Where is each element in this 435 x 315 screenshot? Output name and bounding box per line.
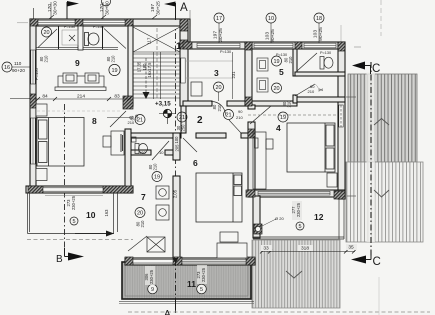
pillar left wall mid [30,94,36,108]
svg-text:83: 83 [114,94,120,100]
section line B (vertical x=64.5) [64,104,66,254]
svg-text:103: 103 [313,30,319,38]
svg-text:C: C [372,63,380,75]
wall room5 vestibule bottom [297,97,345,102]
door swing room9 west [38,29,57,48]
terrace hatch right upper (dark) [348,74,417,162]
shelf lines room3 [186,61,233,78]
window room4 right wall [339,105,343,127]
svg-text:21: 21 [179,115,185,121]
svg-text:10: 10 [268,16,274,22]
pillar bottom wall of room8 east [103,186,133,193]
nightstand room4 [327,173,337,187]
misc small texts [128,84,324,221]
wall room3 bottom east part [227,101,248,106]
stair center line [156,28,158,98]
wall room5 inner horizontal [295,72,345,76]
svg-text:16x17,5: 16x17,5 [147,62,152,78]
svg-text:210: 210 [288,56,293,64]
slope chevron up (right dark terrace) [374,119,389,126]
door room4 to terrace12 [258,191,330,195]
svg-text:16: 16 [4,65,10,71]
door swing room7 lower [128,236,147,251]
section marker A bottom [164,300,176,315]
door swing room8 [110,111,126,127]
wall room7-room6 divider lower [173,176,180,258]
svg-text:19: 19 [111,68,117,74]
pillar room4 bottom west [246,190,255,197]
pillar top-left corner [30,19,38,26]
pillar right wall bottom corner [334,191,345,199]
wall room5 inner vertical lower stub [293,95,297,103]
shower room7 [147,237,165,252]
counter line room 9 [36,48,118,50]
white halo for section line C [367,72,376,242]
window room5 top west [254,43,293,48]
dashed line room4 [248,114,338,116]
svg-text:30+25: 30+25 [156,1,162,15]
bed room6 [196,173,242,222]
pillar top wall at stair left [125,19,133,26]
svg-text:210: 210 [236,115,243,120]
stair direction arrow [143,92,150,99]
window room5 top east [304,43,336,48]
pillar top-right wall mid [295,42,302,49]
svg-text:9: 9 [75,58,80,68]
door room6 to terrace11 [182,259,246,263]
svg-text:160: 160 [139,150,146,155]
dim tick marks top [49,15,157,19]
svg-text:90: 90 [238,109,243,114]
cabinet room3 [191,82,202,96]
slope chevron down (bottom terrace) [286,271,302,278]
svg-text:19: 19 [280,115,286,121]
svg-text:205: 205 [175,144,180,152]
svg-text:197: 197 [213,31,219,39]
window room7 bottom [133,259,173,263]
door dimension rotated texts [39,55,293,228]
wall hall bottom seg2b [196,133,226,138]
svg-text:110: 110 [14,61,22,66]
toilet room9 [85,33,100,46]
pillar top-right wall at rooms3|5 [245,42,252,50]
window room9 top west [38,20,75,25]
wall bottom of room 8 [26,186,133,193]
svg-text:5: 5 [279,67,284,77]
svg-text:163: 163 [104,209,109,217]
terrace10 left edge [27,193,29,234]
wardrobe room8 [103,131,124,155]
svg-text:20: 20 [43,30,49,36]
svg-text:230+25: 230+25 [201,267,206,282]
svg-text:318: 318 [301,246,309,252]
svg-text:P=130: P=130 [276,53,287,57]
section marker A top [164,2,190,21]
svg-text:9: 9 [151,287,154,293]
washbasin cabinet room5 [257,58,268,92]
entry flag top-left [67,1,79,19]
svg-text:30+30: 30+30 [53,1,59,15]
svg-text:P=130: P=130 [320,51,331,55]
door swing wc [152,141,169,160]
dining table bottom bar room9 [55,87,106,91]
svg-text:230+25: 230+25 [71,195,76,210]
svg-text:30+30: 30+30 [105,1,111,15]
svg-text:4: 4 [276,123,281,133]
svg-text:10: 10 [159,150,164,155]
door room8 to terrace10 [43,188,103,191]
faint dashed projection line top right [380,0,382,36]
pillar bottom-left corner [28,186,43,193]
svg-text:5: 5 [200,287,203,293]
wall between rooms 3 and 5 [245,42,252,106]
terrace room 11 slab [122,262,251,299]
slope chevron down (right light terrace) [374,190,389,197]
door swing room5 vestibule [295,84,315,96]
svg-text:18: 18 [316,16,322,22]
wall hall west [181,106,186,133]
pillar bottom wall mid [173,257,182,265]
svg-text:90+20: 90+20 [12,68,25,73]
svg-text:214: 214 [77,94,85,100]
room12 right edge [338,199,340,239]
door swing room6 [183,138,197,152]
pillar top-right wall west end [183,42,192,49]
grid extension right wall [340,25,342,42]
window room9 top east [83,20,125,25]
door swing room9 east [104,29,126,49]
terrace hatch right lower (light) [346,162,423,242]
svg-text:210: 210 [140,220,145,228]
svg-text:20: 20 [215,85,221,91]
terrace hatch below room 12 (light) [252,240,340,308]
pillar bottom wall west [125,257,133,265]
terrace 11 lower edge line [119,300,254,302]
toilet wc [132,137,148,154]
room12 bottom edge [253,236,344,238]
section line C (vertical x=371) [370,62,372,256]
section marker C bottom [351,252,381,268]
alcove left stub room9 [58,26,60,49]
left texts [12,61,39,80]
svg-text:230+25: 230+25 [296,202,301,217]
door hall to room3 [211,101,226,115]
svg-text:210: 210 [134,114,139,122]
svg-text:5: 5 [298,224,301,230]
pillar hall-room4 divider [248,129,255,138]
washing machine room7 [156,186,169,220]
door swing room4 [250,106,271,124]
svg-text:10: 10 [86,210,96,220]
svg-text:19: 19 [154,175,160,181]
wall stair left [128,19,133,106]
section marker C top [352,62,380,76]
svg-text:17,35: 17,35 [137,61,142,72]
pillar stair left bottom [123,96,133,109]
svg-text:A: A [180,2,188,14]
wall room7 left [125,129,131,193]
svg-text:12: 12 [314,212,324,222]
pillar top-right corner [338,42,345,51]
svg-text:P=130: P=130 [93,25,104,29]
dashed line bottom of sheet [128,311,430,313]
wall step between room9 and room3 [183,19,190,49]
area texts rotated [66,195,301,284]
wall room3 bottom west part [183,101,212,106]
stair dim texts [137,37,153,77]
grid stub lines top [12,2,319,67]
wall hall-room4 divider upper stub [248,105,255,109]
svg-text:C: C [373,256,381,268]
svg-text:P=130: P=130 [64,25,75,29]
svg-text:210: 210 [153,163,158,171]
column circle room12 [255,226,260,231]
stair walk line [145,58,147,92]
stair steps [133,52,180,98]
svg-text:170: 170 [99,4,105,12]
svg-text:230+25: 230+25 [149,269,154,284]
terrace10 bottom arrow [106,231,114,237]
svg-text:210: 210 [287,100,292,108]
stair landing diagonals [133,27,180,52]
svg-text:33: 33 [263,246,269,252]
svg-text:17: 17 [216,16,222,22]
svg-text:6: 6 [193,158,198,168]
svg-text:19: 19 [273,59,279,65]
desk room6 [217,243,247,258]
svg-text:197: 197 [150,4,156,12]
P=130 labels [64,25,331,57]
svg-text:210: 210 [217,104,222,112]
door hall east [229,120,241,133]
leader tick right terrace lower [347,195,356,197]
svg-text:B: B [56,254,63,265]
wall top-right exterior [183,42,345,49]
svg-text:84: 84 [42,94,48,100]
wall hall-room4 divider [248,122,255,190]
wall wc bottom seg1 [131,150,151,155]
window room9 left wall [31,50,35,84]
door swing room5 upper [297,53,317,71]
svg-text:20: 20 [137,211,143,217]
svg-text:117: 117 [147,37,152,44]
svg-text:7: 7 [141,192,146,202]
wall left exterior [30,19,36,193]
wardrobe room4 [253,132,273,189]
svg-text:210: 210 [308,89,315,94]
svg-text:P=130: P=130 [220,50,231,54]
top rotated dims [47,1,324,43]
section marker B [56,248,84,265]
svg-text:3: 3 [214,68,219,78]
section line A (vertical x=175.5) [175,8,177,313]
svg-text:8: 8 [92,116,97,126]
svg-text:2,05: 2,05 [173,189,178,198]
svg-text:21: 21 [225,113,231,119]
svg-text:+3,15: +3,15 [155,101,171,108]
svg-text:100: 100 [174,136,179,144]
svg-text:210: 210 [44,55,49,63]
pillar stair right at room3 wall [180,40,188,49]
svg-text:Ø 20: Ø 20 [275,216,284,221]
nightstand room8 [36,104,47,116]
sink unit room9 [62,30,78,45]
svg-text:170: 170 [47,4,53,12]
wall right exterior [338,42,345,199]
svg-text:20: 20 [273,86,279,92]
bottom dim line 33/318/35 [260,244,357,254]
wall stair right [180,21,188,106]
interior dimension line 84/214/83 [35,94,131,102]
faint projection line bottom right [378,277,380,315]
bed room8 [37,118,84,167]
leader tick right terrace upper [346,96,356,98]
bubble leader room3 [218,92,220,101]
window room8 left wall [31,118,35,164]
svg-text:35: 35 [348,245,354,251]
svg-text:250: 250 [181,124,186,132]
wall room5 inner vertical [293,49,297,76]
svg-text:2: 2 [197,115,203,126]
wall top-left exterior [30,19,190,26]
pillar rooms3|5 wall bottom [245,97,252,106]
svg-text:⋈: ⋈ [319,87,323,92]
alcove right stub room9 [102,26,104,49]
grid stub top-left corner [33,8,35,19]
dining chairs room9 [58,73,104,87]
svg-text:210: 210 [128,120,135,125]
wall hall bottom seg3 [241,133,255,138]
pillar column room12 [254,224,262,234]
svg-text:210: 210 [111,55,116,63]
wall room4 bottom [248,190,345,197]
window room3 top [197,43,240,48]
leader tick near right wall top [354,46,361,48]
terrace10 bottom edge [28,233,115,235]
text halos on gray [145,201,302,285]
svg-text:P=150: P=150 [34,68,39,80]
bed room4 [287,123,335,172]
svg-text:103: 103 [265,32,271,40]
nightstand room6 [220,232,238,242]
toilet room5 [320,57,333,70]
pillar bottom wall east [246,257,255,265]
dashed line under terrace 10 [27,239,133,241]
pillar top wall mid [75,19,83,26]
wall room12 left strip [253,196,260,238]
svg-text:A: A [164,309,171,315]
leader line left wall [10,98,30,100]
stair stringers [153,52,155,99]
window stair right wall [181,58,185,83]
svg-text:231: 231 [231,71,236,79]
partition in room9 alcove [78,26,83,50]
svg-text:1: 1 [176,41,182,52]
wall bottom rooms 7/6 [125,258,255,265]
wall room7-room6 divider upper [173,133,180,160]
wall room5 bottom east part [248,101,297,106]
section line A overlay through terrace 11 [175,260,177,303]
wall hall bottom seg1 [125,133,181,138]
svg-text:11: 11 [187,279,196,289]
wall wc bottom seg2 [165,150,173,155]
svg-text:5: 5 [72,219,75,225]
pillar stair right top [180,19,188,31]
